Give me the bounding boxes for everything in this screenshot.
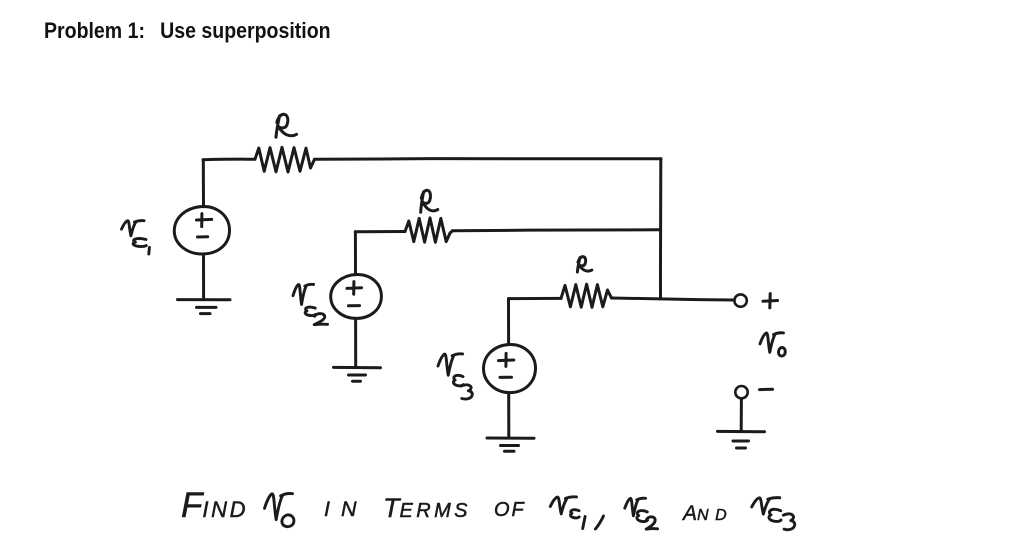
label Vs3 xyxy=(438,354,472,399)
wire: minus terminal to ground xyxy=(740,399,743,432)
comma xyxy=(595,516,603,529)
label Vs2 xyxy=(293,284,328,324)
plus sign (Vs3) xyxy=(499,353,514,366)
voltage source Vs3 xyxy=(483,344,535,392)
ground (Vs1) xyxy=(178,300,231,314)
wire: right vertical bus xyxy=(659,159,662,299)
plus sign (Vs2) xyxy=(347,282,362,295)
svg-text:FIND: FIND xyxy=(181,486,248,525)
label R3 xyxy=(577,257,591,272)
caption Vo xyxy=(265,494,293,520)
plus sign (output) xyxy=(763,294,778,308)
ground (Vs2) xyxy=(334,367,381,381)
wire: Vs3 bottom lead xyxy=(507,393,510,438)
svg-text:OF: OF xyxy=(494,499,526,521)
label R1 xyxy=(276,114,297,137)
minus sign (output) xyxy=(760,388,773,391)
title: Problem 1: Use superposition xyxy=(44,18,331,44)
plus sign (Vs1) xyxy=(197,214,212,227)
svg-text:IN: IN xyxy=(324,497,368,521)
wire: Vs1 top lead xyxy=(202,160,205,207)
label Vs1 xyxy=(122,221,150,254)
wire: top horizontal right segment xyxy=(315,157,662,161)
handwritten caption: FIND Vo IN TERMS OF Vs1, Vs2 AND Vs3 xyxy=(181,486,733,525)
minus sign (Vs2) xyxy=(349,304,360,307)
wire: middle horizontal right segment xyxy=(453,230,661,231)
wire: Vs1 bottom lead xyxy=(202,254,205,299)
voltage source Vs2 xyxy=(331,274,382,318)
ground (Vs3) xyxy=(487,438,534,451)
ground (output) xyxy=(718,431,765,448)
wire: Vs2 top lead xyxy=(354,232,357,275)
caption Vs2 xyxy=(625,498,646,516)
caption Vs3 xyxy=(752,498,780,514)
caption Vs1 xyxy=(550,497,576,514)
wire: middle horizontal left segment xyxy=(355,230,405,233)
minus sign (Vs3) xyxy=(500,376,512,379)
wire: bottom horizontal right segment to + terminal xyxy=(612,298,734,300)
wire: top horizontal left segment xyxy=(203,158,255,162)
minus sign (Vs1) xyxy=(198,235,208,238)
label Vo xyxy=(760,333,785,356)
wire: bottom horizontal left segment xyxy=(509,297,562,300)
label R2 xyxy=(421,190,438,212)
voltage source Vs1 xyxy=(174,206,229,254)
svg-text:AND: AND xyxy=(681,502,733,525)
resistor R2 xyxy=(405,218,453,242)
resistor R1 xyxy=(255,147,315,172)
svg-text:TERMS: TERMS xyxy=(383,493,471,523)
terminal + (open circle) xyxy=(734,294,746,306)
wire: Vs2 bottom lead xyxy=(354,319,357,367)
resistor R3 xyxy=(561,284,612,307)
terminal - (open circle) xyxy=(735,386,747,398)
wire: Vs3 top lead xyxy=(507,299,510,345)
